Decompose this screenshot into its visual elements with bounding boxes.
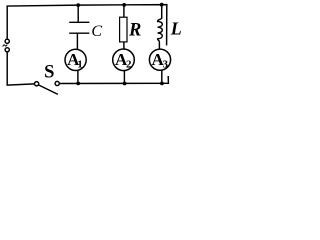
ammeter A3: [149, 49, 170, 70]
wire resistor branch top stub: [123, 5, 125, 17]
switch S contact circle: [55, 81, 59, 85]
wire capacitor branch top stub: [77, 5, 79, 22]
AC terminal lower circle: [5, 48, 9, 52]
svg-text:C: C: [91, 23, 102, 40]
resistor R box: [120, 17, 127, 42]
wire A1 to bottom stub: [77, 70, 79, 83]
wire left-upper + top + right-upper: [7, 5, 167, 46]
wire A3 to bottom stub: [161, 70, 163, 83]
ammeter A1: [65, 49, 86, 70]
wire resistor to A2 stub: [123, 42, 125, 49]
capacitor C top plate: [69, 21, 89, 23]
capacitor C bottom plate: [69, 32, 89, 34]
wire left-lower + bottom-left: [7, 52, 34, 85]
node dot resistor branch top: [122, 3, 126, 7]
wire A2 to bottom stub: [123, 71, 125, 84]
switch S blade: [38, 85, 58, 95]
node dot A2 bottom: [123, 82, 127, 86]
ammeter A2: [113, 49, 135, 71]
svg-text:1: 1: [77, 58, 83, 70]
AC tilde: [3, 44, 8, 46]
wire inductor branch top stub + inductor L coil: [158, 5, 163, 50]
svg-text:L: L: [170, 18, 182, 38]
node dot A3 bottom: [160, 82, 164, 86]
svg-text:3: 3: [162, 58, 168, 70]
svg-text:2: 2: [126, 59, 132, 71]
node dot inductor branch top: [160, 3, 164, 7]
AC terminal upper circle: [5, 39, 9, 43]
switch S pivot circle: [35, 82, 39, 86]
node dot capacitor branch top: [76, 3, 80, 7]
node dot A1 bottom: [76, 82, 80, 86]
svg-text:S: S: [44, 62, 54, 82]
svg-text:R: R: [128, 21, 141, 41]
wire capacitor to A1 stub: [76, 34, 78, 50]
wire bottom-right + right-lower: [59, 76, 168, 84]
